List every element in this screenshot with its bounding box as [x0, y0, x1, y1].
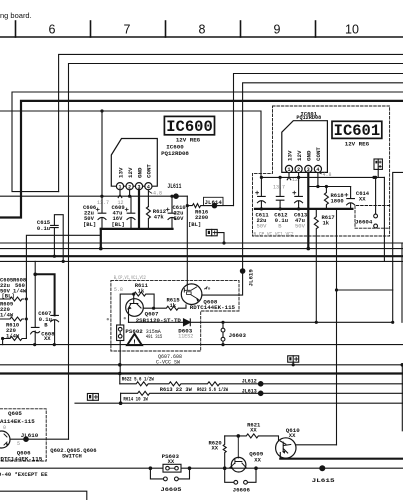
wire bus B (long vertical to JL610) — [69, 64, 403, 440]
svg-text:1800: 1800 — [331, 197, 344, 204]
svg-text:RDTC144EK-115: RDTC144EK-115 — [0, 455, 43, 462]
svg-text:10: 10 — [345, 23, 359, 37]
IC601 pin3 thick ground lead — [307, 173, 309, 249]
transistor Q610 label — [286, 427, 300, 439]
IC600 pin1 lead with probe arrow — [118, 190, 122, 198]
probe dot near Q607 emitter — [124, 317, 126, 319]
resistor R618 label — [331, 192, 345, 205]
svg-text:4.8: 4.8 — [153, 190, 162, 196]
svg-text:CONT: CONT — [315, 147, 322, 161]
resistor R620 — [223, 436, 226, 468]
bus line 5 — [0, 344, 403, 346]
svg-text:JL610: JL610 — [21, 432, 39, 439]
dashed region boundary B,CP VCC switch — [111, 280, 239, 351]
svg-text:PQ12RD08: PQ12RD08 — [161, 150, 189, 157]
svg-text:1k: 1k — [323, 220, 330, 227]
IC601 pin1 lead with probe arrow — [287, 173, 291, 180]
svg-text:IC600: IC600 — [166, 118, 213, 136]
capacitor C611 label — [256, 211, 270, 229]
probe dot near Q607 — [107, 318, 109, 320]
svg-text:12V: 12V — [127, 167, 134, 178]
thick ground rail under IC601 — [255, 208, 352, 210]
probe dot near Q608 — [208, 287, 210, 289]
svg-text:8: 8 — [199, 23, 206, 37]
capacitor C614 label — [356, 190, 370, 203]
svg-text:1k: 1k — [138, 287, 145, 294]
IC600 pin 1 — [116, 183, 123, 191]
bus line 7 thick — [0, 372, 403, 374]
resistor R612 label — [153, 208, 166, 221]
resistor R621 label — [247, 421, 261, 433]
svg-text:50V: 50V — [174, 215, 185, 222]
wire from resistor network to bus area — [26, 235, 100, 338]
transistor Q609 label — [249, 451, 263, 464]
jumper J6605 bypass — [150, 468, 189, 479]
capacitor C609 label — [112, 204, 125, 228]
diode D603 symbol — [184, 319, 191, 326]
capacitor C611 symbol — [257, 177, 265, 209]
connector J6604 — [375, 177, 377, 214]
IC601 pin 3 — [305, 165, 312, 173]
ruler tick 5 — [315, 21, 317, 37]
wire bus E — [12, 92, 403, 192]
ground rail drop to bus — [100, 229, 102, 249]
resistor R615 label — [167, 297, 181, 309]
wire bus A — [59, 54, 403, 191]
fuse PS603 — [163, 464, 181, 472]
resistor R609 symbol — [0, 317, 24, 321]
capacitor C607 symbol — [51, 315, 59, 344]
svg-text:13.7: 13.7 — [97, 200, 109, 206]
svg-text:7: 7 — [124, 23, 131, 37]
svg-text:JL611: JL611 — [167, 183, 181, 190]
bus line 3 thick — [0, 255, 403, 257]
fuse PS603 label — [162, 453, 180, 465]
IC600 pin 3 — [135, 183, 142, 191]
resistor R608 symbol — [0, 297, 24, 301]
transistor Q609 — [229, 436, 246, 472]
svg-text:R613 22 3W: R613 22 3W — [160, 386, 193, 393]
svg-text:J6606: J6606 — [233, 487, 251, 494]
capacitor C606 label — [41, 330, 55, 342]
bottom feed line — [75, 402, 403, 404]
capacitor C615 label — [37, 219, 51, 232]
resistor R610 symbol — [3, 337, 27, 341]
transistor Q607 — [126, 294, 144, 322]
diode D603 line — [129, 321, 393, 323]
ruler tick 3 — [165, 21, 167, 37]
svg-text:B,CP,VC,VC1,VC2: B,CP,VC,VC1,VC2 — [114, 275, 146, 281]
jumper JL614 boxed label — [204, 197, 224, 205]
svg-text:[BL]: [BL] — [83, 221, 96, 228]
IC601 pin2 lead — [298, 173, 300, 178]
capacitor C610 symbol — [168, 196, 176, 229]
bottom left box — [0, 491, 87, 500]
resistor R611 label — [135, 282, 149, 294]
IC600 pin2 lead — [129, 190, 131, 196]
svg-text:5: 5 — [17, 441, 20, 447]
svg-text:12V: 12V — [296, 150, 303, 161]
svg-text:6: 6 — [49, 23, 56, 37]
svg-text:1k: 1k — [170, 302, 177, 309]
Q610 collector wire — [296, 444, 337, 446]
thick ground rail under IC600 — [101, 228, 173, 230]
JL614 line — [187, 204, 233, 208]
wire bus D (down to Q608 collector) — [202, 83, 403, 295]
ruler tick 2 — [90, 21, 92, 37]
12V rail of IC601 — [261, 176, 384, 178]
svg-text:JL619: JL619 — [248, 269, 255, 287]
svg-text:J6604: J6604 — [355, 218, 373, 225]
resistor row A with R622 R613 R623 — [120, 382, 403, 386]
svg-text:XX: XX — [250, 427, 257, 434]
capacitor C612 symbol — [276, 177, 284, 209]
svg-text:1/4W: 1/4W — [13, 287, 27, 294]
capacitor C614 symbol — [347, 187, 355, 209]
wire C609 column from bus G — [101, 111, 103, 196]
IC600 pin3 GND thick lead — [138, 190, 140, 229]
main line with PS603 — [0, 467, 403, 469]
svg-text:J6605: J6605 — [161, 486, 183, 493]
svg-text:R614 10 1W: R614 10 1W — [123, 396, 148, 403]
IC600 label box — [164, 116, 214, 134]
transistor Q606 — [0, 431, 10, 448]
svg-text:50V: 50V — [295, 222, 306, 229]
capacitor C613 symbol — [295, 177, 303, 209]
svg-text:!: ! — [132, 339, 137, 347]
svg-text:13V: 13V — [117, 167, 124, 178]
svg-text:11ES2: 11ES2 — [178, 334, 193, 340]
bus line 1 — [0, 242, 403, 244]
capacitor C608 symbol — [31, 274, 40, 344]
svg-text:5.8: 5.8 — [114, 287, 123, 293]
svg-text:R623 5.6 1/2W: R623 5.6 1/2W — [197, 386, 228, 393]
svg-text:JL612: JL612 — [242, 377, 257, 384]
IC600 pin 2 — [126, 183, 133, 191]
long vertical from ground rail to Q610 — [336, 209, 338, 444]
jumper J6606 bypass — [225, 468, 256, 482]
branch wire to right margin — [337, 289, 393, 291]
jumper JL619 — [240, 268, 246, 274]
transistor Q610 — [276, 438, 296, 459]
wire 12V rail exit left — [0, 195, 102, 197]
jumper JL610 — [10, 438, 69, 440]
resistor R617 — [314, 209, 318, 322]
resistor R608 label — [13, 276, 27, 294]
dashed box around J6604 — [355, 206, 390, 229]
capacitor C612 label — [274, 211, 288, 229]
svg-text:XX: XX — [212, 445, 219, 452]
IC601 pin 4 — [314, 165, 321, 173]
resistor R612 — [146, 207, 150, 229]
voltage note 4.8 — [319, 172, 322, 173]
svg-text:D-40 *EXCEPT EE: D-40 *EXCEPT EE — [0, 471, 48, 478]
warning triangle — [127, 334, 142, 348]
wire bus G (down to C611 rail) — [0, 111, 261, 177]
wire bus C (down to JL614 line) — [234, 74, 403, 206]
ruler tick 4 — [240, 21, 242, 37]
svg-text:12V REG: 12V REG — [345, 141, 370, 148]
rail drop to 12V bus — [383, 177, 385, 261]
svg-text:JL613: JL613 — [242, 388, 257, 395]
fuse PS602 — [119, 294, 121, 325]
IC600 pin4 lead — [147, 190, 149, 207]
svg-text:DTA114EK-115: DTA114EK-115 — [0, 418, 35, 425]
connector tag on bottom feed line — [87, 394, 98, 401]
svg-text:13V: 13V — [286, 150, 293, 161]
ruler tick 1 — [15, 21, 17, 37]
svg-text:XX: XX — [289, 432, 296, 439]
thick elbow to C607 — [35, 274, 54, 315]
wire bus F thick — [0, 101, 403, 218]
resistor network label C605 — [0, 276, 14, 294]
function note C-VCC SW — [156, 354, 182, 365]
tap from 12V rail down to JL614 line — [186, 196, 188, 284]
resistor R618 — [324, 187, 328, 209]
left network feed elbow — [34, 261, 36, 274]
svg-text:JL615: JL615 — [312, 477, 336, 484]
switch group note — [50, 447, 96, 460]
resistor row B with R614 — [121, 391, 403, 395]
resistor R616 label — [195, 208, 208, 221]
wire far right vertical — [401, 243, 403, 322]
resistor R620 label — [209, 439, 222, 451]
svg-text:XX: XX — [254, 457, 261, 464]
svg-text:Q605: Q605 — [8, 410, 22, 417]
right margin lower vertical — [401, 365, 403, 431]
connector tag B+ lower — [288, 356, 299, 367]
thick output line — [280, 458, 403, 460]
svg-text:9: 9 — [274, 23, 281, 37]
svg-text:J6603: J6603 — [229, 332, 247, 339]
svg-text:GND: GND — [306, 150, 313, 161]
svg-text:XX: XX — [168, 458, 175, 465]
svg-text:R622 5.6 1/2W: R622 5.6 1/2W — [122, 375, 155, 382]
svg-text:ng board.: ng board. — [0, 11, 32, 20]
connector J6603 — [221, 321, 224, 324]
12V rail of IC600 — [102, 195, 187, 197]
svg-text:RDTC144EK-115: RDTC144EK-115 — [190, 304, 236, 311]
IC601 label box — [332, 121, 382, 138]
svg-text:[BL]: [BL] — [112, 221, 125, 228]
svg-text:IC601: IC601 — [334, 122, 381, 140]
transistor Q608 digital — [181, 284, 207, 305]
resistor R610 label — [6, 322, 20, 340]
capacitor C607 label — [38, 310, 52, 328]
dashed box Q605 Q606 — [0, 409, 46, 461]
capacitor C609 symbol — [127, 196, 135, 229]
bus line 6 — [0, 364, 403, 366]
svg-text:50V: 50V — [257, 222, 268, 229]
svg-text:[BL]: [BL] — [188, 221, 201, 228]
connector tag near IC601 — [374, 159, 382, 177]
dashed region boundary IC601 — [253, 106, 390, 236]
IC601 pin4 lead — [317, 173, 319, 187]
IC600 pin 4 — [145, 183, 152, 191]
collector line to Q608 — [143, 305, 186, 310]
bus line 2 — [0, 248, 403, 250]
wire right margin vertical upper — [393, 172, 403, 322]
capacitor C606 symbol — [98, 196, 106, 229]
connector tag B+ upper — [206, 229, 225, 244]
svg-text:47k: 47k — [154, 213, 165, 220]
svg-text:GND: GND — [136, 167, 143, 178]
svg-text:B,CP,VC,VC1,VC2: B,CP,VC,VC1,VC2 — [254, 232, 294, 238]
svg-text:XX: XX — [44, 335, 51, 342]
svg-text:2200: 2200 — [195, 214, 208, 221]
capacitor C608 label — [83, 204, 96, 228]
IC601 pin 2 — [295, 165, 302, 173]
svg-text:0: 0 — [3, 425, 6, 431]
capacitor C613 label — [294, 211, 308, 229]
svg-text:0.1u: 0.1u — [37, 225, 50, 232]
line feeding Q609 Q610 — [225, 434, 279, 441]
fuse PS602 rating notes — [146, 329, 163, 340]
svg-text:SWITCH: SWITCH — [62, 453, 82, 460]
IC601 pin 1 — [285, 165, 292, 173]
capacitor C610 label — [173, 204, 202, 228]
regulator IC600 body — [111, 139, 157, 187]
voltage note 4.8 — [149, 192, 152, 194]
svg-text:XX: XX — [359, 196, 366, 203]
svg-text:PQ12RD08: PQ12RD08 — [296, 115, 321, 121]
resistor R609 label — [0, 301, 14, 319]
row B drop to bottom line — [120, 393, 122, 403]
jumper JL615 — [319, 465, 325, 471]
jog down to resistor row A — [119, 374, 121, 384]
svg-text:491 315: 491 315 — [146, 334, 163, 340]
node on bus G — [100, 109, 103, 112]
regulator IC601 body — [282, 121, 328, 173]
base line with resistor R611 — [121, 292, 154, 308]
bus line 4 — [0, 260, 403, 262]
svg-text:12V REG: 12V REG — [176, 136, 201, 143]
sub rail for R618 C614 — [308, 186, 350, 188]
capacitor C615 symbol — [51, 215, 64, 262]
svg-text:CONT: CONT — [146, 164, 153, 178]
resistor R617 label — [322, 214, 335, 227]
ruler baseline — [0, 36, 403, 38]
svg-text:13.7: 13.7 — [273, 185, 285, 191]
